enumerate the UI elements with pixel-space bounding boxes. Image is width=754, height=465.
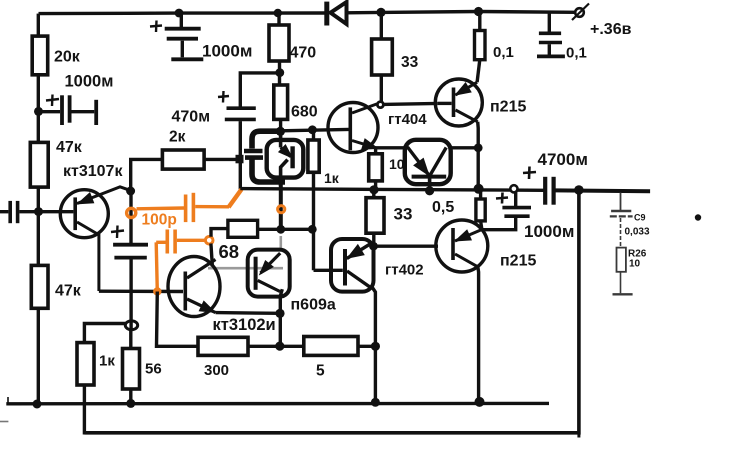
svg-text:47к: 47к [55,283,82,300]
svg-text:1000м: 1000м [524,222,574,241]
wire emitter кт3102и to node [216,311,281,315]
transistor bold VT middle (rounded box) [405,140,451,184]
wire mid rail right [556,188,651,193]
wire п215 collector down [476,122,480,189]
wire 56 to ground rail [129,389,132,404]
svg-text:п609а: п609а [291,297,336,314]
wire 300 to node [248,345,280,348]
node dot 470/680 [275,68,284,77]
wire 10 leads [374,148,377,154]
node dot x280 y313 [275,309,284,318]
svg-text:кт3102и: кт3102и [213,316,276,334]
capacitor 100p orange [186,189,242,222]
wire 47к to base node [37,187,40,266]
resistor 33 first [372,39,393,75]
terminal +36v [572,4,589,21]
grey erased wire [208,267,283,270]
resistor 0,5 [476,199,485,221]
resistor 2к [162,150,204,169]
node dot rail x579 [574,185,584,195]
wire 1к to bottom rail [83,385,86,435]
wire 0,5 to emitter node [481,221,482,230]
svg-text:10: 10 [389,156,405,172]
svg-text:100p: 100p [142,212,177,229]
capacitor 470м [218,73,279,189]
wire 33 to node [372,233,375,246]
svg-text:5: 5 [316,363,325,380]
wire 300 left elbow [157,292,199,347]
wire rail to 33 second [372,190,375,198]
node dot x280 y346 [275,342,284,351]
svg-text:680: 680 [291,104,318,121]
svg-text:1000м: 1000м [65,73,114,91]
wire 680 to bold node [279,119,282,133]
node dot 680 bottom [276,127,285,136]
wire VT middle stem [428,177,432,192]
svg-text:10: 10 [629,259,641,270]
capacitor 1000м top [150,13,203,59]
wire 1к down to гт402 base [312,130,315,140]
resistor 300 [198,337,248,355]
transistor гт402 (rounded box) [331,239,374,292]
wire 2к to node square [204,158,237,161]
wire 68 node to кт3102и collector [211,244,213,267]
wire rail to 470 [277,13,280,25]
node dot rail x478 [474,7,483,16]
wire VT middle collector to right [451,146,479,149]
node dot rail x429 [425,186,434,195]
svg-text:0,1: 0,1 [566,45,587,62]
svg-text:68: 68 [219,241,240,262]
node dot rail x179 [175,9,184,18]
bold feedback loop wire [252,131,285,182]
node dot x375 y346 [371,342,380,351]
transistor п609а (rounded box) [248,250,290,297]
wire 68 to nodes [258,228,314,231]
orange wire to 100p [137,206,185,210]
capacitor 4700м [523,167,554,205]
wire 470 to 680 [278,61,281,86]
transistor п215 top [435,60,482,126]
resistor 0,1 [475,31,486,60]
svg-text:1к: 1к [99,353,115,370]
node dot x281 [276,225,285,234]
node dot ground x131 [126,399,135,408]
svg-text:1000м: 1000м [202,42,252,61]
svg-text:0,1: 0,1 [493,44,514,61]
svg-text:гт404: гт404 [388,111,427,128]
svg-text:п215: п215 [500,253,536,270]
node square junction 2к/470м [236,155,244,164]
wire base кт3102и from collector кт3107к [99,290,183,294]
transistor кт3102и [168,257,220,317]
node dot x478 y148 [474,143,483,152]
svg-text:470м: 470м [172,108,211,125]
wire bottom rail [84,192,579,433]
svg-text:4700м: 4700м [538,150,588,169]
wire 33 to collector ring [380,75,383,102]
ground rail left tick [7,397,9,405]
node dot base кт3107к [34,207,43,216]
resistor 5 [304,337,358,356]
svg-text:кт3107к: кт3107к [63,163,123,180]
svg-text:47к: 47к [56,139,83,156]
svg-text:0,033: 0,033 [625,227,650,238]
resistor 1к left [77,343,94,385]
orange ring node [127,208,136,217]
node dot emitter кт3107к [126,187,135,196]
wire node to п215 bottom base [374,244,439,247]
capacitor electrolytic at collector column [111,191,148,330]
node dot rail x478 [474,184,484,194]
wire mid rail [240,189,543,191]
node dot x312 [308,225,317,234]
transistor bold VT top (rounded box) [267,133,304,186]
wire 5 to node [358,345,375,348]
wire гт404 collector to п215 base [383,103,437,104]
wire гт402 emitter down [372,287,375,346]
wire ring to 1к [84,324,125,343]
resistor 680 [274,85,288,119]
resistor 33 second [366,198,384,234]
capacitor 68-line orange [167,230,205,254]
svg-text:+.36в: +.36в [590,21,632,38]
svg-text:0,5: 0,5 [432,199,454,216]
wire rail to 0,1 [478,12,481,31]
svg-text:п215: п215 [490,99,526,116]
wire 47к2 to ground rail [37,308,40,404]
node ring rail x514 [510,185,517,192]
svg-text:гт402: гт402 [385,262,424,279]
node dot ground x375 [371,398,380,407]
wire rail to 33 [380,12,383,39]
wire base line y130 [280,129,348,130]
wire top supply rail right [346,12,576,13]
resistor 47к second [31,265,48,308]
wire п215 bottom collector down [476,267,480,402]
capacitor 1000м right [482,192,531,230]
svg-text:C9: C9 [634,213,646,223]
transistor гт404 [328,103,378,153]
resistor 20к [32,36,48,75]
orange dot at base wire [153,287,161,295]
svg-text:2к: 2к [169,129,186,146]
resistor 47к first [30,142,48,187]
capacitor bold in loop [244,151,263,158]
svg-text:20к: 20к [54,49,81,66]
diode D1 [327,2,347,26]
wire bold stem down [279,183,283,226]
svg-text:33: 33 [394,205,413,224]
wire ring to 56 [129,329,132,348]
orange wire path2 vertical [156,242,157,291]
orange ring node at 68 wire [205,237,213,245]
wire emitter гт404 node [376,146,405,149]
node dot ground x37 [33,400,42,409]
capacitor input [0,201,39,223]
transistor п215 bottom [436,220,488,272]
wire rail to 0,5 [479,189,482,199]
wire ground rail [6,402,549,406]
svg-text:56: 56 [145,361,162,378]
wire emitter node to 2к [131,159,163,190]
orange ring on stem [278,206,285,213]
resistor 68 [228,220,258,237]
grey erased wire vertical [279,236,282,250]
node dot rail x374 [369,185,378,194]
wire 68 elbow [211,229,228,237]
output fragment C9 R26 [610,193,633,295]
capacitor 1000м left [39,95,97,126]
orange wire path2 horizontal [156,241,166,244]
wire 20к to cap node [37,75,40,143]
node dot A [34,107,43,116]
wire top supply rail left [39,11,326,15]
node dot 1к top [308,125,317,134]
svg-text:470: 470 [290,45,317,62]
svg-text:300: 300 [204,362,229,379]
capacitor 0,1 right [537,13,565,56]
resistor 10 [369,154,383,181]
resistor 470 [269,25,289,61]
node dot гт402 collector [369,242,378,251]
svg-text:1к: 1к [324,170,340,186]
node dot ground x480 [475,397,485,407]
node dot rail x277 [274,9,282,17]
wire left column [37,14,40,37]
svg-text:33: 33 [401,54,419,71]
transistor кт3107к [39,187,131,291]
node ring bottom left [125,321,137,330]
grey dash left edge [0,421,8,423]
wire п609а collector down [280,289,282,346]
resistor 56 [123,349,140,390]
stray dot right [695,214,701,220]
wire node down to ground [374,346,377,402]
node dot rail x381 [376,8,385,17]
resistor 1к right [308,140,319,172]
wire node to 5 [280,345,304,348]
bottom rail corner tick [577,433,580,438]
node ring collector гт404 [377,102,383,108]
